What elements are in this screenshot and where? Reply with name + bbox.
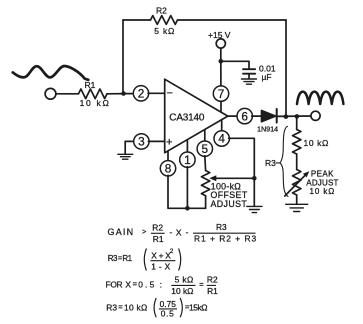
pin 4 xyxy=(214,131,229,146)
svg-text:=: = xyxy=(133,280,138,289)
ground peak pot xyxy=(286,204,308,211)
svg-text:-: - xyxy=(170,227,173,237)
svg-text:1 - X: 1 - X xyxy=(151,261,170,271)
svg-text:R3: R3 xyxy=(216,222,227,232)
svg-text:2: 2 xyxy=(170,248,174,255)
node junction input xyxy=(121,91,126,96)
svg-text:1: 1 xyxy=(184,153,191,167)
wire to capacitor xyxy=(221,61,249,69)
wire offset pot to bus xyxy=(205,196,207,208)
offset pot 100k resistor xyxy=(201,171,209,196)
svg-text:8: 8 xyxy=(165,162,172,176)
pin 1 stub xyxy=(186,140,188,153)
svg-text:5 kΩ: 5 kΩ xyxy=(175,275,194,285)
svg-text:CA3140: CA3140 xyxy=(169,112,205,123)
wire cap to ground xyxy=(248,74,250,79)
node junction bus xyxy=(185,206,190,211)
svg-text:R1: R1 xyxy=(122,254,132,263)
svg-text:10 kΩ: 10 kΩ xyxy=(310,187,336,196)
pin 5 xyxy=(197,141,212,156)
node junction feedback-output xyxy=(284,114,289,119)
svg-text:>: > xyxy=(142,227,147,236)
wire pin5 to offset pot xyxy=(204,156,207,171)
input sine waveform xyxy=(13,66,89,80)
svg-text:ADJUST: ADJUST xyxy=(211,199,248,209)
svg-text:R1: R1 xyxy=(207,286,218,296)
wire pin4 right and down to ground xyxy=(229,138,255,206)
wire feedback top left xyxy=(123,19,151,21)
svg-text:µF: µF xyxy=(262,72,272,82)
svg-text:1N914: 1N914 xyxy=(257,125,278,134)
svg-text:R3: R3 xyxy=(265,158,276,168)
pin 5 stub xyxy=(204,130,206,142)
svg-text:R2: R2 xyxy=(207,275,218,285)
+15V terminal xyxy=(216,39,225,48)
node junction R3 branch xyxy=(295,114,300,119)
R3 brace xyxy=(280,126,288,196)
wire feedback left vertical xyxy=(122,20,124,93)
input terminal xyxy=(45,88,56,99)
svg-text:0.5: 0.5 xyxy=(138,279,156,289)
peak adjust pot arrow xyxy=(285,175,305,196)
diode D1 xyxy=(262,111,276,122)
node junction +15V xyxy=(219,59,224,64)
offset pot wiper arrow xyxy=(214,177,254,179)
wire 10k to pot xyxy=(296,154,298,170)
pin 7 xyxy=(213,86,228,101)
svg-text:2: 2 xyxy=(138,86,145,100)
svg-text:3: 3 xyxy=(138,135,145,149)
formulas xyxy=(106,222,258,318)
svg-text:=: = xyxy=(199,280,204,289)
resistor R1 xyxy=(79,89,108,99)
ground pin4 xyxy=(247,206,262,212)
wire opamp apex to pin6 xyxy=(228,115,238,117)
wire R3 branch down xyxy=(296,116,298,129)
svg-text:R1 + R2 + R3: R1 + R2 + R3 xyxy=(194,234,257,244)
output waveform rectified sine xyxy=(297,92,343,104)
svg-text:R2: R2 xyxy=(152,222,163,232)
wire feedback top right xyxy=(178,19,287,21)
svg-text:R3: R3 xyxy=(106,302,117,312)
svg-text:GAIN: GAIN xyxy=(108,227,135,237)
node junction wiper xyxy=(252,176,257,181)
svg-text:X: X xyxy=(125,279,131,289)
wire pin8 down and bus xyxy=(168,175,206,208)
svg-text:6: 6 xyxy=(241,109,248,123)
pin 6 xyxy=(237,108,252,123)
svg-text:10 kΩ: 10 kΩ xyxy=(124,302,148,312)
svg-text:−: − xyxy=(167,88,173,100)
svg-text:=: = xyxy=(118,303,123,312)
ground pin3 xyxy=(125,141,134,154)
op-amp U1 triangle xyxy=(165,79,228,153)
svg-text:R1: R1 xyxy=(153,234,164,244)
svg-text::: : xyxy=(160,279,162,289)
svg-text:7: 7 xyxy=(218,87,225,101)
wire R1 to node xyxy=(107,93,134,95)
R3 label dash xyxy=(276,162,280,164)
pin 3 xyxy=(134,134,149,149)
svg-text:0.5: 0.5 xyxy=(161,309,175,319)
svg-text:10 kΩ: 10 kΩ xyxy=(80,98,111,108)
resistor R2 xyxy=(151,16,178,25)
svg-text:X: X xyxy=(176,227,182,237)
svg-text:R2: R2 xyxy=(156,6,167,16)
wire pin1 down xyxy=(186,167,188,209)
resistor 10k output xyxy=(293,130,301,155)
wire feedback right vertical xyxy=(285,20,287,117)
svg-text:5: 5 xyxy=(202,142,209,156)
svg-text:5 kΩ: 5 kΩ xyxy=(154,26,175,36)
svg-text:-: - xyxy=(186,227,189,237)
svg-text:15kΩ: 15kΩ xyxy=(189,302,207,312)
wire input to R1 xyxy=(56,93,79,95)
svg-text:0.75: 0.75 xyxy=(160,299,177,309)
svg-text:X + X: X + X xyxy=(151,250,171,260)
wire pin3 to opamp xyxy=(148,140,164,142)
pin 8 xyxy=(160,161,175,176)
wire pin6 to diode xyxy=(252,115,262,117)
svg-text:R3: R3 xyxy=(108,254,118,263)
pin 4 stub xyxy=(221,120,223,132)
svg-text:4: 4 xyxy=(218,132,225,146)
svg-text:PEAK: PEAK xyxy=(311,169,334,178)
svg-text:+15 V: +15 V xyxy=(208,30,231,40)
svg-text:FOR: FOR xyxy=(106,279,123,289)
svg-text:R1: R1 xyxy=(85,80,96,90)
pin 8 stub xyxy=(167,151,169,161)
pin 2 xyxy=(133,86,148,101)
capacitor C1 plates xyxy=(243,69,255,74)
peak adjust pot resistor xyxy=(293,170,301,195)
svg-text:10 kΩ: 10 kΩ xyxy=(304,138,329,148)
ground capacitor xyxy=(242,79,257,84)
wire pin2 to opamp xyxy=(148,92,165,94)
svg-text:+: + xyxy=(166,137,172,149)
wire +15V down to pin7 xyxy=(220,48,222,86)
wire pin7 to opamp xyxy=(220,101,222,111)
output terminal xyxy=(311,111,320,120)
svg-text:10 kΩ: 10 kΩ xyxy=(171,286,193,296)
wire diode to output xyxy=(277,115,311,117)
wire pot to ground xyxy=(296,195,298,204)
pin 1 xyxy=(180,152,195,167)
